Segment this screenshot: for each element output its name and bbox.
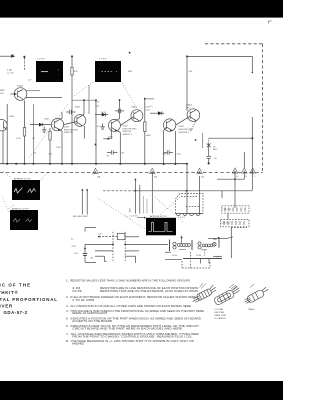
svg-text:105: 105 xyxy=(0,93,4,95)
wire x187 to servo plug xyxy=(186,164,188,214)
ground xyxy=(42,127,46,133)
dashed bottom rail xyxy=(0,172,263,174)
svg-text:50: 50 xyxy=(107,156,110,158)
svg-text:1 V P-P: 1 V P-P xyxy=(37,58,45,60)
svg-text:24V: 24V xyxy=(189,71,193,73)
svg-text:1 2 3 4 5 6: 1 2 3 4 5 6 xyxy=(222,209,231,211)
capacitor C6 xyxy=(107,150,118,154)
pin arrow mark xyxy=(137,217,146,219)
case label TR2 text xyxy=(215,308,227,320)
capacitor C8 xyxy=(164,150,173,154)
wire Q3 collector xyxy=(60,112,62,119)
socket S2 pins xyxy=(224,221,244,225)
svg-text:12C: 12C xyxy=(201,177,205,179)
svg-text:12A: 12A xyxy=(97,176,101,179)
svg-text:1 2 3 4 5: 1 2 3 4 5 xyxy=(129,215,138,217)
transistor case TR2 leader xyxy=(229,284,238,290)
pin cluster left xyxy=(81,189,88,214)
dashed enclosure outline xyxy=(0,44,263,173)
scope waveform box B3 xyxy=(12,180,40,200)
capacitor C5 xyxy=(115,109,124,113)
svg-text:EMITTER: EMITTER xyxy=(215,312,225,314)
svg-text:C1 .05: C1 .05 xyxy=(7,73,14,75)
wire diode feed xyxy=(95,114,108,116)
node dot xyxy=(119,99,121,101)
svg-text:6800: 6800 xyxy=(132,106,138,108)
wire plug drops dashed xyxy=(182,252,210,268)
wire diode feed xyxy=(150,112,164,114)
svg-text:6800: 6800 xyxy=(75,107,81,109)
wire Q8 base link xyxy=(176,116,190,125)
transistor case TR3 xyxy=(243,286,270,305)
svg-text:ELECTRONIC: ELECTRONIC xyxy=(64,129,79,131)
svg-text:C26: C26 xyxy=(95,105,100,107)
title block xyxy=(0,283,58,316)
svg-text:C40: C40 xyxy=(177,154,182,156)
svg-text:SWITCH: SWITCH xyxy=(123,131,132,133)
svg-text:ELECTRONIC: ELECTRONIC xyxy=(179,129,194,131)
wire +V input arrow xyxy=(0,55,15,58)
wire harness y237 xyxy=(125,236,139,238)
svg-text:APPROX 1V P-P: APPROX 1V P-P xyxy=(12,207,29,210)
capacitor C20 xyxy=(83,248,96,263)
wire vertical x96 xyxy=(95,99,97,163)
svg-text:.05: .05 xyxy=(90,257,94,259)
svg-text:RED: RED xyxy=(213,239,218,241)
svg-text:AUX: AUX xyxy=(129,207,132,212)
svg-text:1 2 3 4 5 6: 1 2 3 4 5 6 xyxy=(221,222,230,224)
wire vertical x33 xyxy=(32,104,34,164)
wire harness y251 xyxy=(95,250,139,252)
svg-text:300: 300 xyxy=(163,154,167,156)
svg-text:APPROX 3V P-P: APPROX 3V P-P xyxy=(150,215,167,218)
pin column cluster xyxy=(135,174,153,214)
wire right supply vertical xyxy=(209,117,253,191)
svg-text:40820: 40820 xyxy=(17,85,24,87)
svg-text:BLK RED WHT: BLK RED WHT xyxy=(73,216,89,218)
resistor R4 xyxy=(23,128,25,137)
wire Q7 emitter xyxy=(164,127,167,164)
svg-text:2600: 2600 xyxy=(108,136,114,138)
connector arrow A5 xyxy=(242,168,248,173)
svg-text:1500: 1500 xyxy=(44,118,50,120)
svg-text:40822: 40822 xyxy=(186,105,193,107)
transistor case TR1 leader xyxy=(200,283,207,289)
svg-text:.05: .05 xyxy=(214,158,218,160)
wire vertical x144.8 xyxy=(144,98,146,164)
svg-text:SERIAL AS ACROSS EACH: SERIAL AS ACROSS EACH xyxy=(72,311,107,315)
wire Q3 emitter xyxy=(60,130,62,164)
svg-text:IC OF THE: IC OF THE xyxy=(0,283,31,288)
wire Q1 collector stub xyxy=(26,90,40,92)
svg-text:1/2: 1/2 xyxy=(97,126,101,128)
scope waveform box B5 xyxy=(146,218,176,236)
svg-text:NE-2: NE-2 xyxy=(213,149,217,151)
svg-text:PLUG: PLUG xyxy=(172,255,178,257)
svg-text:COLLAR: COLLAR xyxy=(215,308,224,311)
socket S1 pins xyxy=(225,208,245,212)
scope waveform box B2 xyxy=(95,61,121,82)
diode D1 xyxy=(39,123,43,127)
svg-text:FROM THE POINT TO CHASSIS "CON: FROM THE POINT TO CHASSIS "CONTROLS GROU… xyxy=(72,334,193,338)
main ground bus xyxy=(0,163,187,165)
plug pins group G1 xyxy=(170,236,193,251)
connector arrow A1 xyxy=(93,168,99,173)
leader dots xyxy=(2,82,183,229)
svg-text:D510: D510 xyxy=(64,127,70,129)
svg-text:SWITCH: SWITCH xyxy=(64,132,73,134)
svg-text:C35: C35 xyxy=(120,153,125,155)
wire y256 stub xyxy=(213,255,222,257)
svg-text:APPROX 1V P-P: APPROX 1V P-P xyxy=(14,177,31,180)
svg-text:270: 270 xyxy=(49,154,53,156)
svg-text:3. ALL CAPACITOR IN UF AND AL: 3. ALL CAPACITOR IN UF AND ALL OTHER CAP… xyxy=(66,304,191,308)
svg-text:ELECTRONIC: ELECTRONIC xyxy=(123,128,138,130)
component value labels xyxy=(0,54,256,259)
svg-text:8. VOLTAGE READINGS IS +/- 20: 8. VOLTAGE READINGS IS +/- 20% SHOWN THA… xyxy=(66,339,195,343)
wire Q1 source down xyxy=(24,101,26,128)
scan border bar top xyxy=(0,0,283,18)
svg-text:1 2 3 4: 1 2 3 4 xyxy=(178,217,185,219)
diode D2 xyxy=(102,113,106,117)
wire x199 to servo plug xyxy=(199,176,201,214)
wire B+ corner xyxy=(85,228,96,249)
transistor Q5 xyxy=(108,119,120,131)
wire vertical x72 supply xyxy=(71,55,73,163)
servo plug P1 dashed outline xyxy=(176,194,204,214)
svg-text:GDA-57-2: GDA-57-2 xyxy=(4,310,28,315)
scan border bar bottom xyxy=(0,381,283,400)
stray dot xyxy=(129,52,131,54)
connector arrow A3 xyxy=(197,168,203,173)
connector arrow A2 xyxy=(150,168,156,173)
svg-text:4.7K: 4.7K xyxy=(16,138,21,140)
scope waveform box B4 xyxy=(10,210,38,230)
transistor Q4 xyxy=(74,115,86,127)
SCHEMATIC xyxy=(0,55,188,165)
wire xyxy=(24,136,26,164)
wire x222 stub xyxy=(221,191,223,198)
wire y179 link xyxy=(217,173,244,180)
svg-text:100K: 100K xyxy=(146,135,152,137)
svg-text:+9V: +9V xyxy=(11,54,15,56)
interconnect header J2 dashed xyxy=(124,232,126,261)
ground xyxy=(100,124,104,130)
svg-text:4.7K: 4.7K xyxy=(72,246,77,248)
component box Z1 xyxy=(98,233,125,239)
diode D3 xyxy=(158,111,162,115)
registration mark top right xyxy=(269,21,272,24)
crystal Y1 xyxy=(207,138,211,148)
svg-text:’HKIT®: ’HKIT® xyxy=(0,290,18,295)
svg-text:SWITCH 3: SWITCH 3 xyxy=(179,132,190,134)
wire socket links xyxy=(228,213,247,258)
svg-text:C--: C-- xyxy=(150,105,153,107)
svg-text:-2V: -2V xyxy=(28,79,32,81)
plug pins group G2 xyxy=(198,237,228,256)
svg-text:1 TO 91 OHM: 1 TO 91 OHM xyxy=(72,298,94,302)
wire stub y99 xyxy=(145,98,154,100)
svg-text:CIRCUIT BOARD AND THE PART HER: CIRCUIT BOARD AND THE PART HERE IN EACH … xyxy=(72,326,182,330)
svg-text:A: A xyxy=(236,175,238,178)
capacitor C9 xyxy=(206,148,211,164)
svg-text:IS CASING: IS CASING xyxy=(215,317,226,320)
svg-text:BASE: BASE xyxy=(249,308,255,311)
node dot xyxy=(83,99,85,101)
wire battery lead xyxy=(183,259,222,264)
wire Q4 collector xyxy=(82,100,84,115)
transistor case TR1 xyxy=(190,284,217,303)
wire vertical x7 xyxy=(6,104,8,164)
wire Q5 collector xyxy=(117,100,120,120)
wire x175 xyxy=(174,131,176,164)
svg-text:12B: 12B xyxy=(154,177,158,179)
transistor case TR2 xyxy=(213,285,241,305)
wire harness y244.5 xyxy=(85,244,168,246)
transistor Q8 xyxy=(187,109,200,122)
wire mid horizontal rail xyxy=(103,190,252,192)
transistor Q1 xyxy=(11,88,27,101)
svg-text:2.2M: 2.2M xyxy=(7,70,12,72)
wire harness y256 xyxy=(95,256,136,263)
svg-text:2.2K: 2.2K xyxy=(56,147,61,149)
svg-text:2N-2: 2N-2 xyxy=(186,107,192,109)
wire node rail xyxy=(72,99,96,101)
wire Q2 emitter xyxy=(2,131,4,164)
connector arrow A4 xyxy=(232,168,238,173)
svg-text:C30: C30 xyxy=(146,109,151,111)
svg-text:BASE LINE: BASE LINE xyxy=(215,314,227,317)
wire x89 xyxy=(88,85,90,114)
svg-text:56K: 56K xyxy=(128,71,132,73)
wire 24V feed corner xyxy=(186,55,253,111)
svg-text:1/2 PF: 1/2 PF xyxy=(72,289,83,293)
wire Q5 emitter xyxy=(117,131,120,164)
transistor Q3 xyxy=(51,118,63,130)
resistor R1 xyxy=(24,56,26,70)
wire vertical x50 + resistor R5 xyxy=(49,128,51,164)
svg-text:D520: D520 xyxy=(123,126,129,128)
wire diode feed xyxy=(30,124,51,126)
svg-text:12V: 12V xyxy=(98,234,102,236)
svg-text:GN: GN xyxy=(75,253,79,255)
connector arrow A6 xyxy=(250,168,256,173)
svg-text:1. RESISTOR VALUES LESS THAN: 1. RESISTOR VALUES LESS THAN 1 OHM, NUMB… xyxy=(66,278,190,282)
scope waveform box B1 xyxy=(36,61,63,82)
svg-text:100K: 100K xyxy=(9,116,15,118)
wire Q6 base link xyxy=(120,117,133,126)
wire y237 right xyxy=(228,237,234,239)
interconnect header J1 dashed xyxy=(112,232,114,261)
wire harness out xyxy=(165,252,182,259)
svg-text:SERVO 2: SERVO 2 xyxy=(123,134,133,136)
bus junction dots xyxy=(6,163,188,165)
svg-text:RESISTORS THAT ARE ON THE EXTE: RESISTORS THAT ARE ON THE EXTERIOR, ALSO… xyxy=(100,289,198,293)
svg-text:B+: B+ xyxy=(71,238,74,240)
svg-text:1 V P-P: 1 V P-P xyxy=(99,58,107,60)
wire Q5 base column xyxy=(103,129,111,140)
wire Q1 drain to node xyxy=(26,97,63,99)
socket S2 dashed xyxy=(221,219,250,226)
svg-text:MPF: MPF xyxy=(0,90,5,92)
wire Q8 emitter dashes xyxy=(191,122,203,149)
wire x235 to socket xyxy=(234,173,236,208)
svg-text:.05: .05 xyxy=(33,152,37,154)
wire x244 above rail xyxy=(243,152,245,168)
svg-text:TAL PROPORTIONAL: TAL PROPORTIONAL xyxy=(0,297,58,302)
notes list xyxy=(66,278,204,345)
svg-text:HERE: HERE xyxy=(72,342,85,346)
svg-text:PLUG: PLUG xyxy=(196,255,202,257)
svg-text:ACCEPTS ON THE BOARD: ACCEPTS ON THE BOARD xyxy=(72,319,112,323)
transistor case TR3 leader xyxy=(250,284,254,288)
svg-text:IVER: IVER xyxy=(0,303,13,308)
transistor Q7 xyxy=(163,119,175,131)
socket S1 dashed xyxy=(222,206,249,213)
svg-text:B: B xyxy=(246,176,248,178)
connector pin circle xyxy=(213,243,217,247)
wire Q4 emitter drop xyxy=(84,126,96,146)
svg-text:D530: D530 xyxy=(179,126,185,128)
transistor Q2 xyxy=(0,120,7,131)
wire Q4 base link xyxy=(64,122,77,125)
svg-text:C: C xyxy=(254,176,256,178)
capacitor C3 xyxy=(66,110,76,114)
servo plug P1 pins xyxy=(176,214,204,216)
transistor Q6 xyxy=(131,110,143,122)
svg-text:C4: C4 xyxy=(32,138,36,140)
svg-text:4.7K: 4.7K xyxy=(95,102,100,104)
svg-text:47K: 47K xyxy=(74,71,78,73)
